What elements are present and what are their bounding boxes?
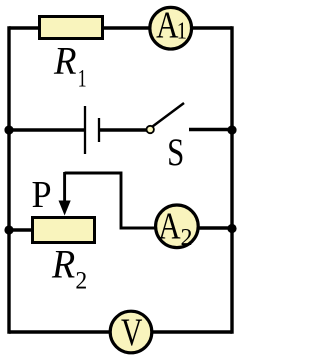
- battery: [85, 106, 99, 154]
- wire: A2 to right rail: [196, 226, 232, 229]
- wire: right rail: [230, 26, 233, 333]
- svg-text:S: S: [167, 129, 184, 174]
- label R2: [51, 243, 87, 295]
- svg-text:R: R: [53, 39, 76, 82]
- wire: left rail to R2: [9, 228, 33, 231]
- label S: [167, 129, 184, 174]
- svg-text:A: A: [158, 205, 180, 247]
- label P: [32, 174, 52, 216]
- wire: bottom rail: [9, 330, 232, 333]
- wire: left rail: [7, 26, 10, 333]
- wire: switch to right rail: [189, 128, 232, 131]
- junction: right A2 node: [227, 224, 236, 233]
- svg-text:R: R: [51, 243, 75, 287]
- ammeter A2: [156, 205, 199, 251]
- voltmeter V: [110, 311, 152, 354]
- label R1: [53, 39, 87, 92]
- switch S: [147, 103, 185, 133]
- svg-text:V: V: [121, 311, 142, 354]
- junction: left-middle node: [4, 125, 13, 134]
- wire: top rail: [9, 26, 232, 29]
- ammeter A1: [150, 4, 192, 49]
- potentiometer R2: [33, 218, 95, 243]
- junction: right-middle node: [227, 125, 236, 134]
- junction: left R2 node: [4, 225, 13, 234]
- wire: battery to switch: [99, 128, 149, 131]
- svg-text:1: 1: [177, 17, 187, 44]
- resistor R1: [40, 17, 103, 39]
- svg-text:A: A: [156, 4, 178, 46]
- svg-text:2: 2: [75, 267, 87, 295]
- svg-text:2: 2: [181, 225, 193, 251]
- wire: wiper jumper to A2: [65, 173, 160, 228]
- wire: middle rail left (to battery): [9, 128, 84, 131]
- svg-text:P: P: [32, 174, 52, 216]
- svg-text:1: 1: [78, 63, 87, 92]
- wiper arrow P: [59, 172, 71, 216]
